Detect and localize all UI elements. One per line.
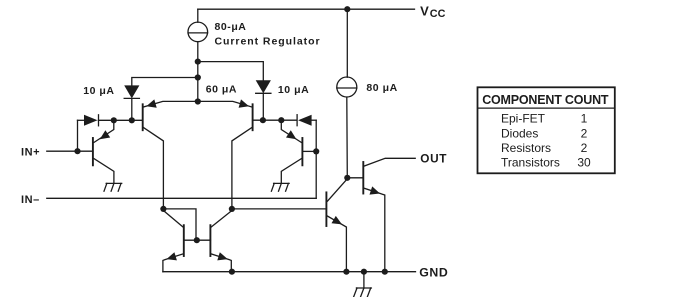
svg-text:Resistors: Resistors xyxy=(501,141,551,155)
svg-text:Current Regulator: Current Regulator xyxy=(215,35,321,47)
svg-text:IN–: IN– xyxy=(21,194,40,206)
svg-text:2: 2 xyxy=(581,141,588,155)
svg-text:OUT: OUT xyxy=(420,152,447,166)
svg-text:CC: CC xyxy=(430,8,446,20)
svg-text:Diodes: Diodes xyxy=(501,126,538,140)
svg-text:Epi-FET: Epi-FET xyxy=(501,112,546,126)
svg-text:1: 1 xyxy=(581,112,588,126)
svg-text:30: 30 xyxy=(577,156,591,170)
svg-text:V: V xyxy=(420,3,429,18)
svg-text:60 μA: 60 μA xyxy=(206,84,237,96)
svg-text:80 μA: 80 μA xyxy=(366,82,397,94)
svg-text:10 μA: 10 μA xyxy=(83,85,114,97)
svg-text:Transistors: Transistors xyxy=(501,156,560,170)
svg-text:IN+: IN+ xyxy=(21,147,40,159)
svg-text:2: 2 xyxy=(581,126,588,140)
svg-text:80-μA: 80-μA xyxy=(215,21,247,33)
svg-text:COMPONENT COUNT: COMPONENT COUNT xyxy=(482,93,609,107)
svg-text:10 μA: 10 μA xyxy=(278,84,309,96)
svg-text:GND: GND xyxy=(419,265,448,279)
